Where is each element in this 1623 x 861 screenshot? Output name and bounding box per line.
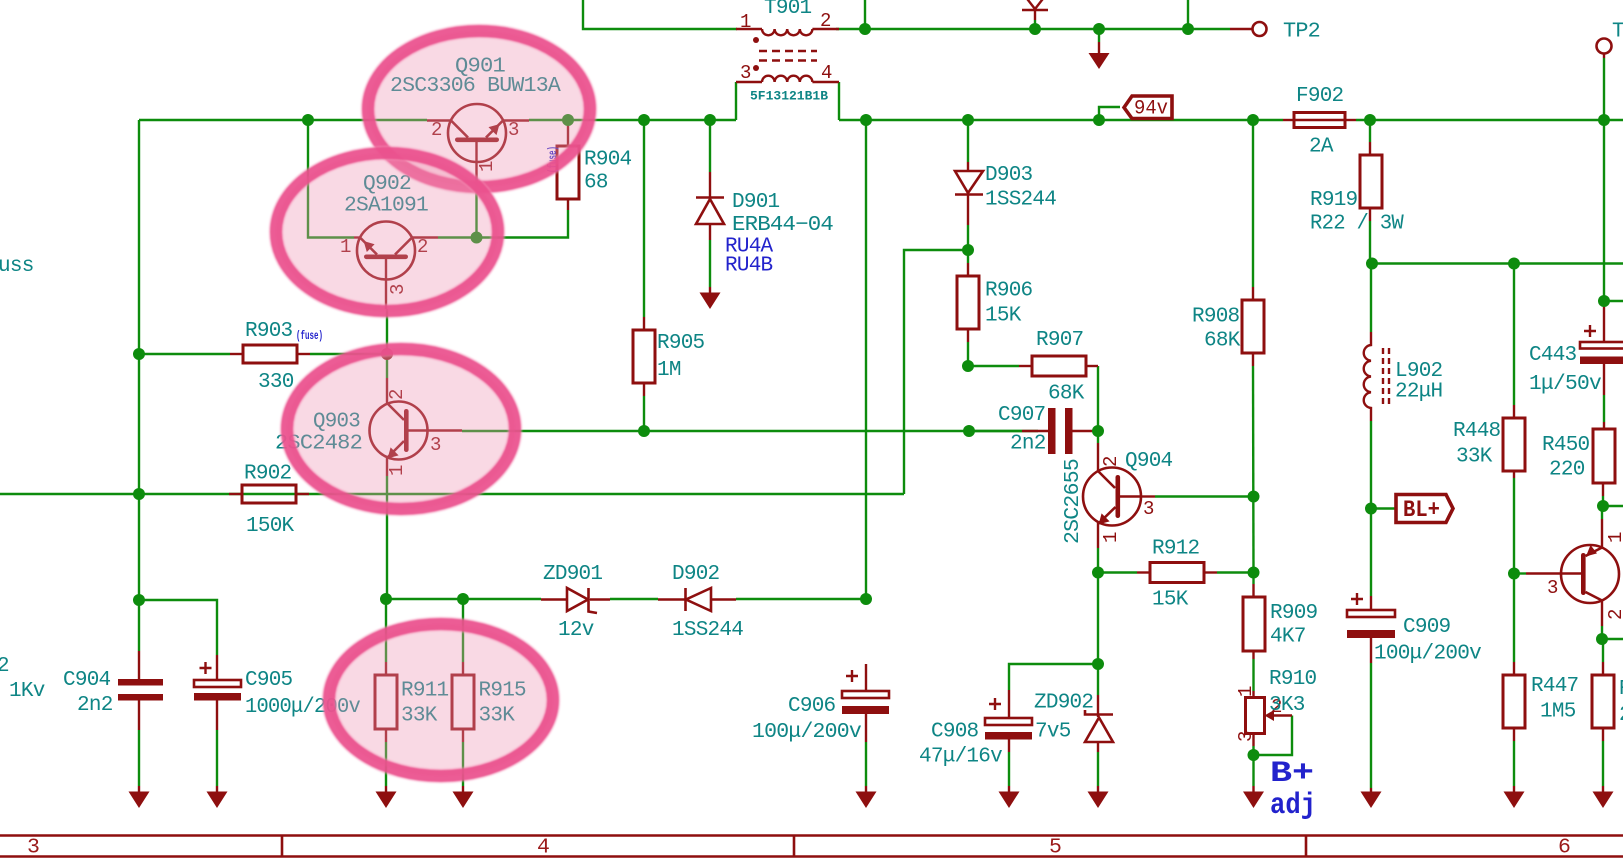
diode D903	[955, 162, 983, 225]
node Q904 collector	[1248, 491, 1260, 503]
svg-text:2n2: 2n2	[77, 694, 113, 717]
wire D903 top	[967, 120, 969, 162]
svg-text:22μH: 22μH	[1395, 381, 1442, 404]
wire QX base stub	[1514, 572, 1526, 574]
wire R450 bottom	[1602, 496, 1604, 506]
wire C443 to R450	[1603, 395, 1605, 422]
node rail A x=1035	[1029, 23, 1041, 35]
node R450 bottom	[1597, 500, 1609, 512]
svg-text:3: 3	[27, 836, 40, 860]
wire Q902 base branch	[308, 120, 354, 238]
svg-text:B+: B+	[1270, 757, 1314, 791]
wire top stub at x=1188	[1187, 0, 1189, 29]
svg-text:1: 1	[740, 11, 751, 33]
transformer T901	[736, 10, 839, 84]
node rail B x=968	[962, 114, 974, 126]
svg-text:5: 5	[1049, 836, 1062, 860]
highlight ellipse Q901	[368, 31, 590, 187]
wire rail A right of T901	[836, 28, 1230, 30]
wire node301 stub right	[1604, 300, 1623, 302]
wire C909 bottom	[1370, 663, 1372, 788]
gnd arrow ZD902	[1088, 786, 1109, 808]
node rail A x=1188	[1182, 23, 1194, 35]
svg-text:TP2: TP2	[1283, 21, 1320, 44]
wire C904 bottom	[138, 730, 140, 786]
wire D901 bottom	[709, 240, 711, 287]
capacitor C905	[194, 655, 241, 730]
svg-text:1: 1	[1100, 532, 1122, 543]
svg-text:C906: C906	[788, 695, 836, 718]
svg-text:5F13121B1B: 5F13121B1B	[750, 89, 828, 104]
inductor L902	[1364, 332, 1389, 421]
svg-text:2: 2	[1100, 456, 1122, 467]
svg-text:4: 4	[537, 836, 550, 860]
potentiometer R910	[1235, 686, 1292, 746]
wire R907 right corner down	[1097, 366, 1099, 431]
svg-text:1: 1	[1235, 686, 1257, 697]
capacitor C909	[1347, 593, 1395, 663]
gnd arrow C908	[999, 786, 1020, 808]
svg-text:150K: 150K	[246, 515, 295, 538]
diode D902	[658, 588, 736, 611]
wire R446 top	[1602, 639, 1604, 662]
wire D901 top	[709, 120, 711, 172]
svg-text:220: 220	[1619, 704, 1623, 727]
power arrow on rail A	[1089, 42, 1110, 69]
svg-text:68: 68	[584, 172, 608, 195]
svg-text:33K: 33K	[1456, 446, 1493, 469]
node C907 left	[963, 425, 975, 437]
node R903 left	[133, 348, 145, 360]
svg-text:R907: R907	[1036, 329, 1083, 352]
power arrow D901	[700, 287, 721, 309]
wire ZD901 row left	[386, 598, 541, 600]
resistor R909	[1243, 584, 1265, 659]
wire 94v label stub	[1099, 107, 1120, 120]
svg-text:100μ/200v: 100μ/200v	[1374, 643, 1481, 666]
svg-text:C443: C443	[1529, 344, 1577, 367]
svg-text:C908: C908	[931, 721, 979, 744]
svg-text:R446: R446	[1619, 678, 1623, 701]
resistor R448	[1503, 405, 1525, 478]
title block	[0, 836, 1623, 860]
svg-text:R910: R910	[1269, 668, 1317, 691]
wire R910 wiper loop	[1254, 716, 1292, 756]
svg-text:6: 6	[1558, 836, 1571, 860]
wire ZD902 column	[1097, 573, 1099, 696]
wire R903 left	[139, 353, 230, 355]
node rail C left	[1366, 258, 1378, 270]
svg-text:uss: uss	[0, 255, 34, 278]
svg-text:2n2: 2n2	[1010, 433, 1046, 456]
capacitor C443	[1580, 301, 1623, 395]
svg-text:100μ/200v: 100μ/200v	[752, 721, 861, 744]
HIGHLIGHTS	[276, 31, 590, 776]
resistor R904	[557, 120, 579, 210]
node R910 bottom	[1248, 749, 1260, 761]
wire R910 bottom to gnd	[1252, 746, 1254, 786]
wire Q903.3 row y=431	[462, 430, 1038, 432]
wire horizontal y=494	[0, 493, 904, 495]
resistor R446 right edge	[1592, 662, 1614, 741]
svg-text:1SS244: 1SS244	[672, 619, 743, 642]
resistor R907	[1019, 356, 1098, 376]
wire R911 bottom	[385, 742, 387, 786]
svg-text:1μ/50v: 1μ/50v	[1529, 373, 1601, 396]
wire QX pin2 bottom	[1601, 626, 1603, 639]
wire C904 top	[138, 600, 140, 651]
transistor Q904	[1083, 443, 1155, 548]
resistor R919	[1360, 142, 1382, 221]
fuse F902	[1283, 113, 1356, 128]
wire rail A top left vertical	[583, 0, 737, 29]
wire R909 bottom	[1252, 659, 1254, 691]
wire stub under top diode D9xx	[1034, 20, 1036, 29]
wire R909 top	[1252, 573, 1254, 585]
resistor R903	[230, 345, 310, 363]
svg-text:68K: 68K	[1048, 383, 1085, 406]
node rail B x=644	[638, 114, 650, 126]
node rail B x=568	[562, 114, 574, 126]
wire top stub at x=865	[864, 0, 866, 29]
node D903 R906	[962, 244, 974, 256]
net label BL+	[1396, 495, 1453, 524]
node R911 top	[380, 593, 392, 605]
gnd arrow R911	[376, 786, 397, 808]
gnd arrow R915	[453, 786, 474, 808]
wire QX emitter top	[1601, 506, 1603, 519]
svg-text:1Kv: 1Kv	[9, 680, 45, 703]
capacitor C904	[118, 651, 163, 730]
svg-text:12v: 12v	[558, 619, 594, 642]
wire rail C	[1371, 262, 1623, 264]
wire rail B right of fuse	[1356, 119, 1623, 121]
svg-text:94v: 94v	[1134, 98, 1168, 121]
svg-text:RU4B: RU4B	[725, 255, 773, 278]
node R912 right	[1248, 567, 1260, 579]
gnd arrow R446	[1593, 786, 1614, 808]
svg-text:220: 220	[1549, 459, 1585, 482]
svg-text:R919: R919	[1310, 189, 1358, 212]
svg-text:R909: R909	[1270, 602, 1318, 625]
wire R912 left	[1098, 571, 1137, 573]
svg-text:C907: C907	[998, 404, 1045, 427]
wire C905 branch	[139, 600, 217, 655]
gnd arrow C905	[207, 786, 228, 808]
wire D902 to C906 column	[736, 598, 866, 600]
wire L902 top	[1370, 264, 1372, 333]
wire rail B left part	[139, 119, 427, 121]
node R903 right red	[381, 348, 393, 360]
wire TP3 column	[1603, 58, 1605, 120]
svg-text:R908: R908	[1192, 306, 1240, 329]
node C443 top	[1598, 295, 1610, 307]
node rail B x=1253	[1247, 114, 1259, 126]
wire C906 column from rail B	[865, 120, 867, 599]
wire Q902.3 to node	[386, 309, 388, 354]
transistor Q902	[340, 222, 438, 310]
svg-text:R447: R447	[1531, 675, 1578, 698]
resistor R911	[375, 662, 397, 742]
gnd arrow C904	[129, 786, 150, 808]
wire R919 top	[1369, 120, 1371, 142]
wire Q904 collector right	[1155, 495, 1254, 497]
node rail B x=1099	[1093, 114, 1105, 126]
svg-text:7v5: 7v5	[1035, 721, 1071, 744]
svg-text:ERB44−04: ERB44−04	[732, 214, 833, 237]
test point TP2	[1230, 22, 1267, 36]
wire rail B middle part	[839, 119, 1283, 121]
wire D903 bottom	[967, 225, 969, 250]
node R905 bottom	[638, 425, 650, 437]
wire R448 bottom	[1513, 478, 1515, 574]
highlight ellipse Q902	[276, 153, 498, 311]
wire R915 bottom	[462, 742, 464, 786]
transistor Q901	[427, 104, 529, 178]
svg-text:T901: T901	[764, 0, 812, 20]
gnd arrow R910	[1243, 786, 1264, 808]
resistor R905	[633, 317, 655, 396]
svg-text:3: 3	[1547, 577, 1558, 599]
highlight ellipse Q903	[287, 349, 515, 509]
svg-text:2: 2	[0, 655, 9, 678]
wire R912 right	[1217, 571, 1254, 573]
svg-text:D902: D902	[672, 563, 720, 586]
svg-text:Q904: Q904	[1125, 450, 1173, 473]
gnd arrow R447	[1504, 786, 1525, 808]
svg-text:R22 / 3W: R22 / 3W	[1310, 213, 1404, 236]
svg-text:3K3: 3K3	[1269, 694, 1305, 717]
node rail B x=710	[704, 114, 716, 126]
highlight ellipse R911 R915	[329, 624, 553, 776]
wire R447 bottom	[1513, 741, 1515, 786]
capacitor C907	[1022, 408, 1098, 454]
wire R905 top	[643, 120, 645, 317]
node rail A x=1099	[1093, 23, 1105, 35]
resistor R450	[1593, 422, 1615, 496]
test point TP3 top right	[1597, 39, 1612, 59]
diode D9xx top cut-off	[1021, 0, 1049, 20]
wire Q904 base stub	[1097, 431, 1099, 443]
svg-text:2SC2655: 2SC2655	[1062, 459, 1085, 544]
node BL+	[1365, 503, 1377, 515]
node Q901 base Q902 collector	[471, 232, 483, 244]
resistor R908	[1242, 287, 1264, 366]
svg-text:R903: R903	[245, 320, 293, 343]
svg-text:3: 3	[1235, 731, 1257, 742]
wire R907 left	[968, 365, 1019, 367]
node QX base	[1508, 568, 1520, 580]
svg-text:2: 2	[1605, 609, 1623, 620]
node rail B x=1604	[1598, 114, 1610, 126]
resistor R902	[229, 485, 309, 503]
node Q904 emitter	[1092, 567, 1104, 579]
wire TP3 column to C443	[1603, 120, 1605, 301]
svg-text:R912: R912	[1152, 538, 1200, 561]
wire between ZD901 and D902	[610, 598, 658, 600]
wire C908 branch	[1009, 664, 1098, 690]
wire L902 bottom to BL+	[1370, 421, 1372, 510]
svg-text:3: 3	[740, 62, 751, 84]
wire Q904 emitter down	[1097, 548, 1099, 573]
svg-text:R448: R448	[1453, 420, 1501, 443]
wire C909 top	[1370, 510, 1372, 596]
wire power arrow stub at 1099	[1098, 29, 1100, 42]
svg-text:R906: R906	[985, 280, 1033, 303]
svg-text:ZD901: ZD901	[543, 563, 602, 586]
wire R908 top	[1252, 120, 1254, 287]
svg-text:TP3: TP3	[1612, 21, 1623, 44]
resistor R447	[1503, 662, 1525, 741]
wire R906 top stub	[967, 250, 969, 263]
svg-text:R902: R902	[244, 463, 292, 486]
wire C908 bottom	[1008, 752, 1010, 786]
svg-text:C909: C909	[1403, 616, 1451, 639]
node QX pin2	[1596, 633, 1608, 645]
resistor R906	[957, 263, 979, 342]
node rail B x=1370	[1364, 114, 1376, 126]
svg-text:1M: 1M	[657, 359, 681, 382]
zener diode ZD902	[1085, 695, 1113, 752]
svg-text:1SS244: 1SS244	[985, 189, 1056, 212]
transistor QX right edge	[1526, 519, 1623, 626]
wire node506 stub right	[1603, 505, 1623, 507]
wire C905 bottom	[216, 730, 218, 786]
svg-text:ZD902: ZD902	[1034, 692, 1093, 715]
svg-text:15K: 15K	[1152, 589, 1189, 612]
resistor R912	[1137, 563, 1217, 583]
wire Q903.1 down	[386, 476, 388, 599]
zener diode ZD901	[541, 588, 610, 613]
wire x=904 vertical	[904, 250, 968, 494]
wire ZD902 bottom	[1097, 752, 1099, 786]
svg-text:1: 1	[1605, 532, 1623, 543]
svg-text:4: 4	[821, 62, 832, 84]
wire left vertical rail	[138, 120, 140, 600]
transistor Q903	[370, 378, 463, 476]
wire T901 pin4 drop	[838, 82, 840, 120]
wire node639 stub right	[1602, 638, 1623, 640]
gnd arrow C906	[856, 786, 877, 808]
node R906 R907	[962, 360, 974, 372]
diode D901	[696, 172, 724, 240]
svg-text:C904: C904	[63, 669, 111, 692]
node C906 top	[860, 593, 872, 605]
gnd arrow C909	[1361, 788, 1382, 808]
svg-text:C905: C905	[245, 669, 293, 692]
wire node to Q903.2	[386, 354, 388, 378]
svg-text:adj: adj	[1270, 789, 1316, 823]
node rail A x=865	[859, 23, 871, 35]
wire R911 top	[385, 599, 387, 662]
svg-text:1M5: 1M5	[1540, 701, 1576, 724]
svg-text:330: 330	[258, 371, 294, 394]
svg-text:4K7: 4K7	[1270, 626, 1306, 649]
wire R906 bottom	[967, 342, 969, 366]
wire Q901 base down	[475, 178, 477, 238]
node C907 right	[1092, 425, 1104, 437]
node rail B x=308	[302, 114, 314, 126]
capacitor C908	[985, 690, 1032, 752]
svg-text:D901: D901	[732, 191, 780, 214]
wire R919 bottom	[1369, 221, 1371, 264]
capacitor C906	[842, 664, 889, 742]
node rail C R448	[1508, 258, 1520, 270]
svg-text:BL+: BL+	[1403, 497, 1440, 523]
node R915 top	[457, 593, 469, 605]
wire R903 right	[310, 353, 387, 355]
node ZD902 top	[1092, 658, 1104, 670]
svg-text:68K: 68K	[1204, 330, 1241, 353]
svg-text:R905: R905	[657, 332, 705, 355]
svg-text:D903: D903	[985, 164, 1033, 187]
wire R447 top	[1513, 574, 1515, 663]
svg-text:2A: 2A	[1309, 136, 1334, 159]
wire Q902 collector to R904	[438, 210, 568, 238]
net label 94v	[1124, 96, 1172, 121]
wire R446 bottom	[1602, 741, 1604, 786]
wire R915 top	[462, 599, 464, 662]
wire R908 bottom to Q904 collector node	[1252, 366, 1255, 573]
svg-text:15K: 15K	[985, 305, 1022, 328]
svg-text:R450: R450	[1542, 434, 1590, 457]
svg-text:2: 2	[820, 10, 831, 32]
node rail B x=866	[860, 114, 872, 126]
wire C907 left lead-in	[969, 430, 1022, 432]
svg-text:(fuse): (fuse)	[296, 330, 323, 343]
svg-text:3: 3	[1143, 498, 1154, 520]
svg-text:47μ/16v: 47μ/16v	[919, 746, 1002, 769]
node R902 left	[133, 488, 145, 500]
resistor R915	[452, 662, 474, 742]
wire C906 bottom	[865, 742, 867, 786]
wire T901 pin3 drop	[735, 82, 737, 120]
wire BL+ stub	[1371, 507, 1396, 509]
svg-text:R904: R904	[584, 149, 632, 172]
wire R448 top	[1513, 264, 1515, 406]
svg-text:F902: F902	[1296, 85, 1344, 108]
wire R905 bottom	[643, 396, 645, 431]
node C904 top	[133, 594, 145, 606]
